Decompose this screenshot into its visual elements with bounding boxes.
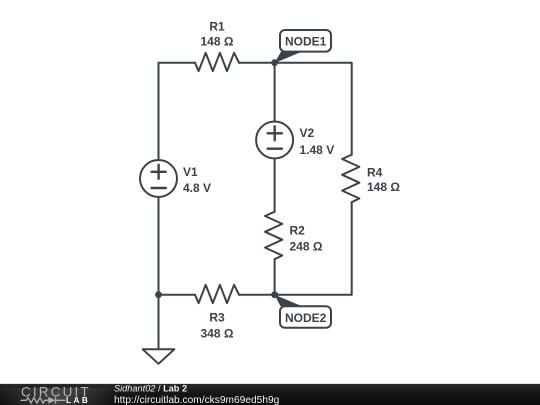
wire R2 to node B <box>274 259 276 295</box>
svg-text:http://circuitlab.com/cks9m69e: http://circuitlab.com/cks9m69ed5h9g <box>114 395 280 405</box>
resistor R1 zigzag <box>195 53 239 71</box>
ground stem wire <box>158 295 160 350</box>
resistor R3 zigzag <box>195 285 239 303</box>
svg-text:148 Ω: 148 Ω <box>367 180 400 194</box>
ground symbol triangle <box>143 349 175 364</box>
wire R1 to node A <box>239 62 275 64</box>
NODE2 label box <box>280 306 331 328</box>
resistor R2 zigzag <box>265 212 282 260</box>
NODE1 label tail <box>275 52 302 63</box>
svg-text:R2: R2 <box>290 224 306 238</box>
voltage source V1 circle <box>140 160 177 197</box>
svg-text:R1: R1 <box>209 20 225 34</box>
wire left rail upper (top wire down to V1) <box>158 63 160 160</box>
footer bar background <box>0 383 540 386</box>
svg-text:4.8 V: 4.8 V <box>183 181 211 195</box>
svg-text:R3: R3 <box>209 311 225 325</box>
svg-text:348 Ω: 348 Ω <box>201 327 234 341</box>
wire node A to top-right corner <box>275 62 352 64</box>
wire R3 to node B <box>239 294 275 296</box>
wire bottom-left horizontal (left rail to R3) <box>159 294 195 296</box>
svg-text:148 Ω: 148 Ω <box>201 35 234 49</box>
wire left rail lower (V1 to bottom wire) <box>158 197 160 295</box>
voltage source V2 circle <box>256 122 293 159</box>
svg-text:LAB: LAB <box>66 396 90 405</box>
V1 plus sign <box>152 165 166 179</box>
wire middle branch upper (node A to V2) <box>274 63 276 121</box>
svg-text:248 Ω: 248 Ω <box>290 240 323 254</box>
wire top-left horizontal (left rail to R1) <box>159 62 196 64</box>
resistor R4 zigzag <box>342 155 359 203</box>
wire V2 to R2 <box>274 159 276 212</box>
svg-text:Sidhant02 / Lab 2: Sidhant02 / Lab 2 <box>114 383 187 393</box>
NODE2 label tail <box>275 295 302 307</box>
svg-text:1.48 V: 1.48 V <box>300 143 335 157</box>
svg-text:NODE1: NODE1 <box>285 35 327 49</box>
node A junction dot (NODE1) <box>271 59 278 66</box>
NODE1 label box <box>280 30 331 52</box>
svg-text:R4: R4 <box>367 166 383 180</box>
V2 plus sign <box>268 126 282 140</box>
V2 minus sign <box>268 147 282 149</box>
svg-text:NODE2: NODE2 <box>285 311 327 325</box>
V1 minus sign <box>152 187 166 189</box>
svg-text:V1: V1 <box>183 165 198 179</box>
wire right rail upper (top corner to R4) <box>351 63 353 155</box>
CircuitLab logo resistor-diode glyph <box>21 397 66 404</box>
junction dot left-bottom <box>155 291 162 298</box>
node B junction dot (NODE2) <box>271 291 278 298</box>
wire node B to bottom-right corner <box>275 294 352 296</box>
svg-text:V2: V2 <box>300 126 315 140</box>
wire right rail lower (R4 to bottom wire) <box>351 202 353 295</box>
